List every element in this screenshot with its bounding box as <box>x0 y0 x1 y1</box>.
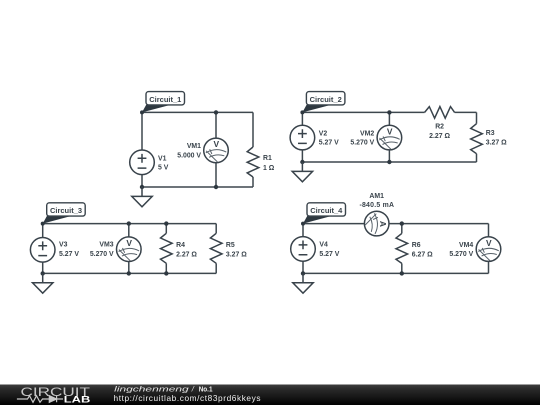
svg-text:Circuit_4: Circuit_4 <box>310 206 343 215</box>
svg-text:R4: R4 <box>176 242 185 249</box>
resistor R3 <box>471 124 483 154</box>
node junction <box>140 185 144 189</box>
wire <box>142 186 253 188</box>
svg-text:V: V <box>214 139 220 149</box>
node anchor Circuit_4 <box>301 222 305 226</box>
wire <box>252 177 254 187</box>
svg-text:5 V: 5 V <box>158 165 169 172</box>
wire <box>215 224 217 234</box>
ground <box>33 273 53 293</box>
node junction <box>214 110 218 114</box>
resistor R6 <box>396 233 408 263</box>
svg-text:VM2: VM2 <box>360 130 374 137</box>
svg-text:LAB: LAB <box>64 394 91 404</box>
wire <box>215 112 217 138</box>
voltmeter VM1 <box>204 138 229 163</box>
flag label Circuit_1 <box>142 92 185 113</box>
wire <box>141 175 143 187</box>
node junction <box>301 271 305 275</box>
wire <box>215 263 217 273</box>
svg-text:3.27 Ω: 3.27 Ω <box>486 140 507 147</box>
wire <box>455 111 477 113</box>
wire <box>42 224 44 238</box>
svg-text:6.27 Ω: 6.27 Ω <box>412 252 433 259</box>
node junction <box>300 160 304 164</box>
svg-text:V2: V2 <box>319 130 328 137</box>
wire <box>43 223 217 225</box>
svg-text:R2: R2 <box>435 124 444 131</box>
svg-text:VM4: VM4 <box>459 242 473 249</box>
svg-text:3.27 Ω: 3.27 Ω <box>226 252 247 259</box>
flag label Circuit_2 <box>302 92 345 113</box>
wire <box>303 272 489 274</box>
svg-text:5.27 V: 5.27 V <box>59 251 79 258</box>
svg-text:R5: R5 <box>226 242 235 249</box>
wire <box>302 224 304 237</box>
wire <box>301 112 303 125</box>
svg-text:Circuit_3: Circuit_3 <box>50 206 82 215</box>
node junction <box>164 271 168 275</box>
svg-text:AM1: AM1 <box>369 193 384 200</box>
node anchor Circuit_2 <box>300 110 304 114</box>
svg-text:Circuit_2: Circuit_2 <box>310 95 342 104</box>
flag label Circuit_4 <box>303 203 346 224</box>
svg-text:A: A <box>378 221 388 227</box>
resistor R1 <box>247 147 259 177</box>
resistor R2 <box>425 107 455 119</box>
wire <box>401 224 403 234</box>
svg-text:5.270 V: 5.270 V <box>449 251 473 258</box>
svg-text:5.27 V: 5.27 V <box>319 251 339 258</box>
svg-text:Circuit_1: Circuit_1 <box>149 95 181 104</box>
node junction <box>387 110 391 114</box>
wire <box>43 272 217 274</box>
voltmeter VM4 <box>476 237 501 262</box>
svg-text:-840.5 mA: -840.5 mA <box>359 202 394 209</box>
resistor R4 <box>161 233 173 263</box>
wire <box>301 150 303 162</box>
node junction <box>164 221 168 225</box>
svg-text:5.270 V: 5.270 V <box>350 140 374 147</box>
ground <box>292 162 312 182</box>
wire <box>165 263 167 273</box>
voltmeter VM3 <box>117 237 142 262</box>
node junction <box>400 221 404 225</box>
node anchor Circuit_1 <box>140 110 144 114</box>
svg-text:2.27 Ω: 2.27 Ω <box>176 252 197 259</box>
wire <box>42 262 44 274</box>
voltmeter VM2 <box>377 125 402 150</box>
wire <box>476 112 478 123</box>
node junction <box>127 271 131 275</box>
svg-text:V1: V1 <box>158 155 167 162</box>
node junction <box>400 271 404 275</box>
voltage source V2 <box>290 125 315 150</box>
node junction <box>127 221 131 225</box>
svg-text:1 Ω: 1 Ω <box>263 165 275 172</box>
svg-text:5.27 V: 5.27 V <box>319 140 339 147</box>
svg-text:http://circuitlab.com/ct83prd6: http://circuitlab.com/ct83prd6kkeys <box>114 393 261 403</box>
svg-text:V: V <box>486 238 492 248</box>
voltage source V3 <box>30 238 55 263</box>
wire <box>252 112 254 147</box>
wire <box>488 224 490 237</box>
ammeter AM1 <box>364 211 389 236</box>
wire <box>165 224 167 234</box>
wire <box>302 111 424 113</box>
node junction <box>41 271 45 275</box>
ground <box>293 273 313 293</box>
svg-text:R1: R1 <box>263 155 272 162</box>
wire <box>302 261 304 273</box>
wire <box>215 163 217 187</box>
wire <box>388 112 390 125</box>
svg-text:R6: R6 <box>412 242 421 249</box>
flag label Circuit_3 <box>43 203 85 224</box>
node junction <box>214 185 218 189</box>
svg-text:2.27 Ω: 2.27 Ω <box>429 133 450 140</box>
svg-text:5.000 V: 5.000 V <box>177 152 201 159</box>
footer bar <box>0 385 540 405</box>
wire <box>401 263 403 273</box>
wire <box>141 112 143 150</box>
svg-text:V: V <box>387 126 393 136</box>
svg-text:VM1: VM1 <box>187 143 201 150</box>
voltage source V4 <box>291 237 316 262</box>
wire <box>128 262 130 274</box>
svg-text:V3: V3 <box>59 242 68 249</box>
resistor R5 <box>210 233 222 263</box>
svg-text:VM3: VM3 <box>99 242 113 249</box>
wire <box>142 111 253 113</box>
wire <box>302 161 476 163</box>
wire <box>128 224 130 237</box>
svg-text:R3: R3 <box>486 130 495 137</box>
voltage source V1 <box>130 150 155 175</box>
wire <box>388 150 390 162</box>
svg-text:V4: V4 <box>319 242 328 249</box>
node junction <box>387 160 391 164</box>
node anchor Circuit_3 <box>41 222 45 226</box>
wire <box>476 154 478 162</box>
svg-text:V: V <box>126 238 132 248</box>
CircuitLab logo resistor-diode glyph <box>17 396 63 403</box>
wire <box>488 261 490 273</box>
wire <box>389 223 488 225</box>
ground <box>132 187 152 207</box>
wire <box>303 223 364 225</box>
svg-text:5.270 V: 5.270 V <box>90 251 114 258</box>
